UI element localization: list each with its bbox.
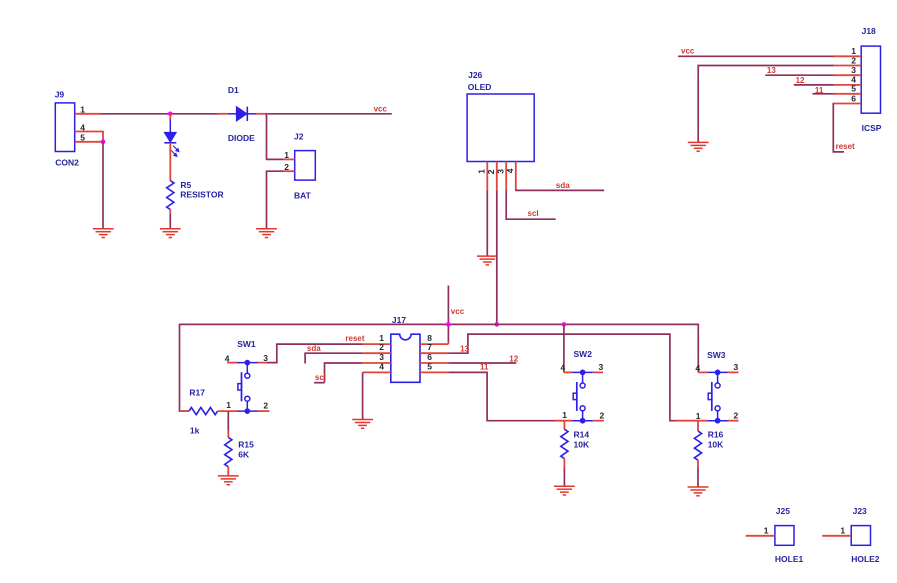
switch SW3 body: [707, 370, 728, 423]
wire SW1 pin3 to J17 pin1 reset: [267, 344, 363, 363]
ground G7: [218, 476, 239, 485]
svg-text:2: 2: [263, 401, 268, 411]
wire diode to vcc: [268, 113, 392, 115]
svg-text:4: 4: [561, 363, 566, 373]
wire main vcc bus: [180, 323, 699, 325]
switch SW3 pin 3: [728, 362, 739, 372]
J18 pin 6: [834, 93, 862, 103]
switch SW3 pin 4: [695, 363, 707, 373]
connector J23: [851, 506, 880, 564]
svg-text:3: 3: [599, 362, 604, 372]
svg-text:12: 12: [796, 76, 805, 85]
svg-text:vcc: vcc: [374, 105, 388, 114]
ground G3: [256, 229, 277, 238]
wire vcc to J18 pin1: [678, 55, 834, 57]
J23 pin 1: [822, 525, 851, 535]
resistor R5: [167, 180, 224, 209]
junction LED anode: [168, 112, 173, 117]
wire bus to R17: [180, 324, 190, 411]
connector J9: [55, 89, 79, 167]
svg-text:scl: scl: [315, 373, 326, 382]
J26 pin 2: [486, 162, 497, 191]
junction OLED pin2 on bus: [495, 322, 500, 327]
wire J17 pin8 to vcc bus: [447, 324, 449, 344]
switch SW1 body: [237, 361, 258, 414]
wire bus to SW2 pin4: [563, 324, 565, 372]
svg-text:13: 13: [460, 344, 469, 353]
switch SW2 pin 2: [593, 410, 605, 420]
svg-text:RESISTOR: RESISTOR: [180, 189, 223, 199]
J18 pin 3: [834, 65, 862, 75]
switch SW2 pin 3: [593, 362, 604, 373]
J9 pin 5: [75, 133, 103, 143]
wire R17 to SW1 pin1: [218, 410, 237, 412]
LED D5 anode lead: [169, 114, 171, 133]
svg-text:J25: J25: [776, 506, 790, 516]
J18 pin 4: [834, 75, 862, 85]
switch SW1 pin 1: [226, 400, 231, 410]
IC J17: [391, 315, 420, 383]
svg-text:4: 4: [80, 122, 85, 132]
svg-text:J26: J26: [468, 70, 482, 80]
wire 11 from J17 pin5 to SW2 pin1: [448, 372, 555, 420]
svg-text:13: 13: [767, 66, 776, 75]
switch SW2 pin 1: [556, 410, 573, 421]
svg-text:reset: reset: [836, 142, 855, 151]
svg-text:2: 2: [600, 410, 605, 420]
svg-text:J18: J18: [862, 26, 876, 36]
svg-text:1: 1: [226, 400, 231, 410]
wire 12 to J18 pin4: [794, 84, 834, 86]
svg-text:12: 12: [509, 354, 518, 363]
svg-text:4: 4: [505, 168, 515, 173]
connector J25: [775, 506, 804, 564]
svg-text:sda: sda: [556, 181, 570, 190]
switch SW2 body: [572, 370, 593, 423]
LED D5 body: [164, 132, 179, 156]
svg-text:SW2: SW2: [574, 349, 593, 359]
svg-text:sda: sda: [307, 344, 321, 353]
J9 pin 1: [75, 105, 101, 115]
svg-text:3: 3: [851, 65, 856, 75]
J2 pin 2: [266, 162, 295, 172]
svg-text:1: 1: [284, 150, 289, 160]
svg-text:10K: 10K: [708, 440, 724, 450]
svg-text:1: 1: [477, 169, 487, 174]
svg-text:1: 1: [840, 525, 845, 535]
connector J18 ICSP: [861, 26, 882, 133]
wire 13 to J18 pin3: [765, 74, 833, 76]
ground G4: [477, 256, 498, 265]
svg-text:R16: R16: [708, 430, 724, 440]
wire J9 pin5 to ground: [102, 142, 104, 230]
svg-text:HOLE2: HOLE2: [851, 554, 880, 564]
svg-text:1: 1: [562, 410, 567, 420]
J26 pin 4: [505, 162, 516, 191]
junction J9 pins 4-5: [101, 140, 106, 145]
J18 pin 2: [834, 55, 862, 65]
svg-text:SW1: SW1: [237, 339, 256, 349]
ground G5: [688, 142, 709, 151]
svg-text:D1: D1: [228, 85, 239, 95]
wire R16 to ground: [697, 460, 699, 487]
J9 pin 4: [75, 122, 103, 141]
svg-text:CON2: CON2: [55, 157, 79, 167]
wire R14 to ground: [563, 459, 565, 487]
resistor R14: [561, 421, 590, 459]
J17 pin 7: [420, 342, 448, 353]
wire sda from J17 pin2: [305, 353, 363, 363]
switch SW3 pin 1: [676, 411, 708, 421]
J17 pin 2: [363, 342, 391, 353]
J17 pin 8: [420, 333, 448, 344]
J25 pin 1: [746, 525, 775, 535]
resistor R15: [225, 437, 254, 466]
svg-text:2: 2: [284, 162, 289, 172]
wire bus to SW3 pin4: [697, 324, 699, 373]
junction SW2 branch: [562, 322, 567, 327]
svg-text:J2: J2: [294, 131, 304, 141]
wire 13 from J17 pin7 to SW3 pin1: [448, 334, 675, 421]
ground G2: [160, 229, 181, 238]
svg-text:4: 4: [225, 353, 230, 363]
wire sda from J26 pin4: [516, 189, 604, 191]
J2 pin 1: [266, 150, 295, 160]
wire vcc to J2 pin1: [266, 113, 268, 159]
svg-text:11: 11: [815, 86, 824, 95]
wire scl from J26 pin3: [506, 190, 556, 219]
svg-text:3: 3: [734, 362, 739, 372]
diode D1: [218, 85, 267, 143]
ground G8: [554, 486, 575, 495]
switch SW3 pin 2: [728, 410, 739, 420]
junction J17 pin8 on bus: [446, 322, 451, 327]
ground G6: [352, 420, 373, 429]
wire R15 to ground: [227, 467, 229, 477]
svg-text:11: 11: [480, 362, 489, 371]
J17 pin 4: [363, 361, 391, 372]
svg-text:2: 2: [851, 55, 856, 65]
svg-text:2: 2: [379, 342, 384, 352]
switch SW1 pin 2: [258, 401, 270, 412]
wire J9 pin1 to diode: [101, 113, 218, 115]
wire scl from J17 pin3: [314, 363, 363, 383]
svg-text:ICSP: ICSP: [862, 123, 882, 133]
svg-text:10K: 10K: [574, 439, 590, 449]
switch SW1 pin 3: [258, 353, 269, 363]
svg-text:SW3: SW3: [707, 350, 726, 360]
J17 pin 6: [420, 352, 448, 363]
wire SW1 pin1 to R15: [227, 411, 229, 437]
svg-text:BAT: BAT: [294, 191, 312, 201]
svg-text:OLED: OLED: [468, 82, 492, 92]
svg-text:R14: R14: [574, 429, 590, 439]
J18 pin 5: [834, 84, 862, 94]
svg-text:4: 4: [695, 363, 700, 373]
svg-text:J9: J9: [55, 89, 65, 99]
svg-text:7: 7: [427, 342, 432, 352]
J17 pin 5: [420, 361, 448, 372]
wire 11 to J18 pin5: [812, 93, 833, 95]
svg-text:6: 6: [851, 93, 856, 103]
svg-text:1: 1: [80, 105, 85, 115]
svg-text:5: 5: [851, 84, 856, 94]
svg-text:2: 2: [734, 410, 739, 420]
wire LED cathode to R5: [169, 143, 171, 181]
svg-text:1k: 1k: [190, 426, 200, 436]
connector J26 OLED: [467, 70, 534, 162]
ground G9: [688, 487, 709, 496]
svg-text:1: 1: [764, 525, 769, 535]
junction vcc stub: [446, 322, 451, 327]
svg-text:4: 4: [379, 361, 384, 371]
svg-text:J17: J17: [392, 315, 406, 325]
svg-text:3: 3: [263, 353, 268, 363]
wire J17 pin4 to ground: [362, 372, 364, 420]
wire J26 pin2 to vcc bus: [496, 190, 498, 324]
svg-text:1: 1: [696, 411, 701, 421]
svg-text:R17: R17: [189, 387, 205, 397]
vcc stub on bus: [447, 286, 449, 325]
svg-text:6K: 6K: [238, 449, 250, 459]
switch SW2 pin 4: [561, 363, 573, 373]
svg-text:5: 5: [427, 361, 432, 371]
switch SW1 pin 4: [225, 353, 237, 363]
J17 pin 3: [363, 352, 391, 363]
svg-text:J23: J23: [853, 506, 867, 516]
svg-text:reset: reset: [345, 334, 364, 343]
wire J26 pin1 to ground: [486, 190, 488, 256]
svg-text:DIODE: DIODE: [228, 133, 255, 143]
wire J2 pin2 to ground: [266, 171, 268, 229]
svg-text:R15: R15: [238, 440, 254, 450]
connector J2: [294, 131, 315, 200]
resistor R16: [694, 421, 724, 461]
svg-text:vcc: vcc: [451, 307, 465, 316]
wire J18 pin2 to ground: [698, 66, 833, 143]
resistor R17: [189, 387, 218, 435]
J18 pin 1: [834, 46, 862, 56]
svg-text:scl: scl: [528, 209, 539, 218]
svg-text:3: 3: [495, 169, 505, 174]
svg-text:vcc: vcc: [681, 47, 695, 56]
svg-text:5: 5: [80, 133, 85, 143]
J17 pin 1: [363, 333, 391, 344]
ground G1: [93, 229, 114, 238]
wire reset from J18 pin6: [833, 104, 844, 152]
svg-text:HOLE1: HOLE1: [775, 554, 804, 564]
J26 pin 1: [477, 162, 488, 191]
J26 pin 3: [495, 162, 506, 191]
wire R5 to ground: [169, 210, 171, 230]
wire 12 from J17 pin6: [448, 362, 516, 364]
